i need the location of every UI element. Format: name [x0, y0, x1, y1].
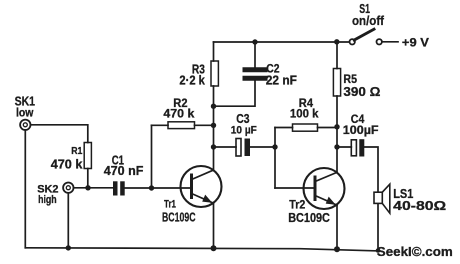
switch S1: [350, 29, 399, 44]
resistor R4: [275, 124, 337, 188]
svg-text:SeekI©.com: SeekI©.com: [377, 245, 453, 259]
svg-text:100µF: 100µF: [343, 125, 379, 137]
svg-text:100 k: 100 k: [290, 107, 319, 121]
node junction Tr2 emitter/rail: [334, 246, 340, 252]
node junction C4 wire: [334, 144, 339, 149]
svg-text:470 k: 470 k: [163, 107, 194, 121]
svg-text:on/off: on/off: [352, 13, 385, 28]
wire Tr2 base: [275, 187, 314, 189]
svg-text:low: low: [16, 107, 33, 119]
socket SK1: [20, 120, 30, 130]
wire SK2 down: [67, 193, 69, 248]
capacitor C3: [214, 139, 276, 157]
capacitor C1: [113, 181, 191, 195]
svg-text:2·2 k: 2·2 k: [179, 73, 205, 88]
node junction LS1/rail: [376, 248, 381, 253]
svg-text:R1: R1: [71, 145, 82, 157]
wire left edge down: [24, 130, 26, 248]
svg-text:10 µF: 10 µF: [231, 124, 257, 136]
resistor R2: [152, 122, 214, 188]
svg-text:470 nF: 470 nF: [104, 163, 144, 178]
svg-text:40-80Ω: 40-80Ω: [393, 198, 446, 213]
svg-text:BC109C: BC109C: [288, 210, 330, 225]
resistor R5: [333, 42, 340, 173]
transistor Tr2: [304, 168, 345, 209]
node junction C2-top rail: [252, 39, 257, 44]
wire R3 top stub: [213, 42, 215, 61]
node junction C3 right: [272, 144, 277, 149]
transistor Tr1: [181, 166, 222, 207]
node junction C3 wire: [211, 144, 216, 149]
svg-text:Tr1: Tr1: [164, 198, 176, 210]
wire Tr1 emitter down: [213, 203, 215, 248]
node junction R5-top rail: [334, 39, 339, 44]
node junction SK2/rail: [66, 245, 71, 250]
svg-text:390 Ω: 390 Ω: [343, 84, 380, 99]
wire SK2 to C1: [74, 187, 113, 189]
wire bottom rail: [25, 248, 378, 251]
node junction R4 right: [334, 124, 339, 129]
wire R1 bottom: [87, 169, 89, 188]
resistor R3: [211, 61, 218, 86]
svg-text:+9 V: +9 V: [402, 36, 429, 50]
node junction Tr1 emitter/rail: [211, 245, 217, 251]
svg-text:470 k: 470 k: [51, 157, 83, 172]
node junction R1/SK2 wire: [85, 185, 90, 190]
wire main column R3 bottom to Tr1 collector: [213, 86, 215, 170]
wire Tr2 emitter down: [336, 205, 338, 249]
wire top rail: [214, 41, 350, 43]
socket SK2: [63, 183, 73, 193]
svg-text:high: high: [38, 194, 57, 206]
svg-text:SK1: SK1: [15, 94, 35, 109]
capacitor C2: [214, 42, 266, 106]
node junction R2 down/base wire: [149, 185, 154, 190]
node junction C2 wire: [211, 104, 216, 109]
svg-text:BC109C: BC109C: [162, 210, 196, 225]
svg-text:22 nF: 22 nF: [266, 73, 297, 88]
speaker LS1: [374, 184, 390, 213]
node junction R2 wire: [211, 123, 216, 128]
capacitor C4: [337, 139, 378, 250]
wire SK1 to R1: [31, 125, 88, 143]
resistor R1: [84, 143, 91, 169]
